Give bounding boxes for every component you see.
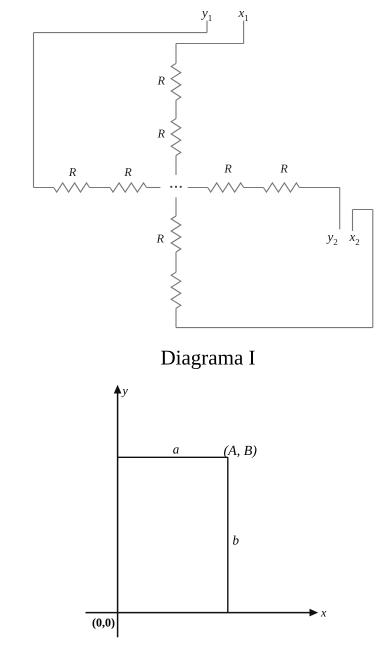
svg-text:R: R [68,165,77,179]
resistor R top1 [171,63,181,100]
wire left chain segment 1 [34,187,54,189]
resistor R bottom2 [171,272,181,308]
wire between bottom resistors [175,252,177,272]
svg-text:R: R [123,165,132,179]
svg-text:(A, B): (A, B) [224,444,258,459]
resistor R right2 [263,183,299,192]
wire left chain to center gap [147,187,161,189]
wire right chain to corner [299,187,339,189]
wire bottom horizontal [176,327,373,329]
rectangle top side a [118,456,228,458]
svg-text:a: a [173,442,180,457]
wire bottom column from center gap [175,197,177,216]
rectangle right side b [227,457,229,612]
svg-text:R: R [223,162,232,176]
svg-text:(0,0): (0,0) [92,616,115,630]
node y1 stub wire [206,21,208,33]
wire bottom column lower [175,308,177,327]
node y2 drop wire [339,188,341,230]
wire right vertical [372,210,374,328]
svg-text:b: b [233,533,240,548]
wire top horizontal to center column [176,43,244,45]
x axis line [86,612,315,614]
svg-text:R: R [279,162,288,176]
resistor R left1 [54,183,90,192]
wire x2 bracket top [353,209,373,211]
x axis arrowhead [310,609,319,617]
wire between right resistors [244,187,264,189]
node x2 stub wire [352,210,354,232]
y axis arrowhead [114,385,122,394]
svg-text:R: R [157,74,166,88]
y axis line [117,389,119,637]
resistor R left2 [110,183,147,192]
resistor R right1 [208,183,244,192]
node x1 stub wire [243,21,245,44]
resistor R top2 [171,119,181,156]
wire top-left horizontal [34,32,208,34]
svg-text:R: R [156,232,165,246]
node center ellipsis dots [170,186,182,188]
svg-text:y: y [122,384,129,398]
wire between top resistors [175,100,177,118]
resistor R bottom1 [171,216,181,252]
wire top column to center gap [175,156,177,175]
wire top column upper [175,44,177,64]
svg-text:Diagrama I: Diagrama I [160,346,255,370]
wire left vertical [33,33,35,188]
wire right chain from center gap [188,187,208,189]
svg-text:x: x [320,606,327,620]
wire between left resistors [90,187,111,189]
svg-text:R: R [157,127,166,141]
